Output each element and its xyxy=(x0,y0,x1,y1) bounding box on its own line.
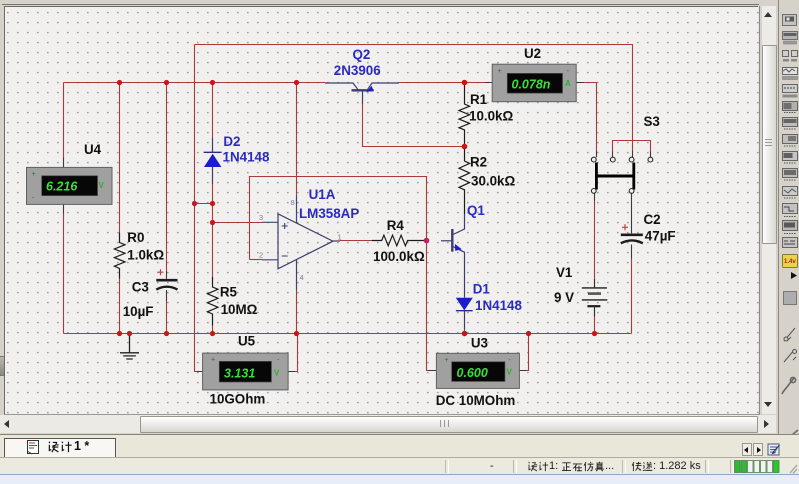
svg-text:U2: U2 xyxy=(524,46,541,61)
svg-text:U3: U3 xyxy=(471,335,488,350)
svg-text:V: V xyxy=(274,369,280,378)
svg-text:+: + xyxy=(32,171,36,178)
svg-text:R2: R2 xyxy=(470,155,487,170)
svg-text:0.600: 0.600 xyxy=(457,366,488,380)
svg-text:+: + xyxy=(211,357,215,364)
svg-text:3.131: 3.131 xyxy=(224,366,255,380)
svg-text:8: 8 xyxy=(291,198,295,207)
svg-text:S3: S3 xyxy=(644,114,660,129)
svg-text:R4: R4 xyxy=(387,218,405,233)
svg-text:6.216: 6.216 xyxy=(46,180,78,194)
svg-text:1.0kΩ: 1.0kΩ xyxy=(127,248,164,263)
svg-text:R5: R5 xyxy=(220,285,238,300)
svg-text:V1: V1 xyxy=(556,265,573,280)
svg-text:30.0kΩ: 30.0kΩ xyxy=(471,174,516,189)
svg-text:C2: C2 xyxy=(644,212,661,227)
svg-text:R0: R0 xyxy=(127,230,144,245)
svg-text:D2: D2 xyxy=(223,134,240,149)
svg-text:D1: D1 xyxy=(473,282,491,297)
svg-text:1N4148: 1N4148 xyxy=(475,298,522,313)
svg-text:V: V xyxy=(99,181,105,190)
svg-text:100.0kΩ: 100.0kΩ xyxy=(373,249,425,264)
svg-text:V: V xyxy=(507,368,513,377)
svg-text:A: A xyxy=(565,79,571,88)
svg-text:C3: C3 xyxy=(132,280,149,295)
svg-text:0.078n: 0.078n xyxy=(512,77,551,91)
svg-text:Q1: Q1 xyxy=(467,203,485,218)
svg-text:+: + xyxy=(498,68,502,75)
svg-text:+: + xyxy=(445,357,449,364)
svg-text:9 V: 9 V xyxy=(554,290,574,305)
svg-text:1: 1 xyxy=(338,233,342,242)
svg-text:1N4148: 1N4148 xyxy=(223,150,270,165)
svg-text:4: 4 xyxy=(300,273,304,282)
svg-text:U5: U5 xyxy=(238,334,256,349)
svg-text:2N3906: 2N3906 xyxy=(334,63,381,78)
svg-text:U4: U4 xyxy=(84,142,102,157)
svg-text:LM358AP: LM358AP xyxy=(299,206,359,221)
svg-text:2: 2 xyxy=(259,251,263,260)
svg-text:10MΩ: 10MΩ xyxy=(221,302,258,317)
svg-text:3: 3 xyxy=(259,213,263,222)
svg-text:DC 10MOhm: DC 10MOhm xyxy=(436,393,516,408)
svg-text:10GOhm: 10GOhm xyxy=(210,392,266,407)
svg-text:10µF: 10µF xyxy=(123,304,154,319)
svg-text:1.4v: 1.4v xyxy=(784,259,796,265)
svg-text:10.0kΩ: 10.0kΩ xyxy=(469,109,514,124)
svg-text:U1A: U1A xyxy=(309,187,336,202)
svg-text:47µF: 47µF xyxy=(645,229,676,244)
svg-text:R1: R1 xyxy=(470,92,488,107)
svg-text:Q2: Q2 xyxy=(353,47,371,62)
